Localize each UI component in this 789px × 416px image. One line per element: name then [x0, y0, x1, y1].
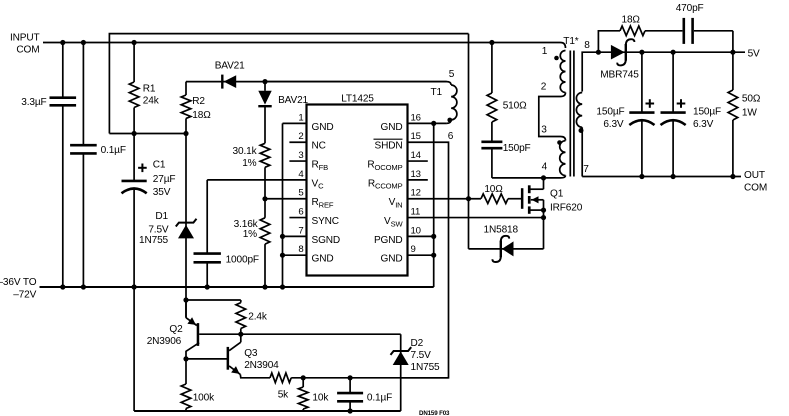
svg-text:T1*: T1* — [563, 36, 578, 47]
svg-text:7: 7 — [298, 225, 303, 236]
svg-text:R1: R1 — [143, 84, 156, 95]
svg-text:6.3V: 6.3V — [603, 119, 624, 130]
svg-text:GND: GND — [312, 254, 334, 265]
svg-text:MBR745: MBR745 — [600, 70, 639, 81]
svg-text:1%: 1% — [242, 158, 256, 169]
svg-text:2N3904: 2N3904 — [244, 360, 279, 371]
svg-text:13: 13 — [411, 169, 421, 180]
svg-text:18Ω: 18Ω — [622, 15, 641, 26]
svg-text:LT1425: LT1425 — [341, 93, 374, 104]
svg-text:C1: C1 — [153, 160, 166, 171]
svg-text:D2: D2 — [411, 338, 424, 349]
svg-text:16: 16 — [411, 112, 421, 123]
svg-text:15: 15 — [411, 131, 421, 142]
svg-text:7.5V: 7.5V — [411, 350, 432, 361]
svg-text:24k: 24k — [143, 96, 160, 107]
svg-text:DN159 F03: DN159 F03 — [419, 410, 450, 416]
svg-text:5: 5 — [449, 69, 455, 80]
svg-text:COM: COM — [744, 183, 767, 194]
svg-text:470pF: 470pF — [676, 3, 704, 14]
svg-text:5k: 5k — [278, 389, 289, 400]
svg-text:18Ω: 18Ω — [192, 110, 211, 121]
svg-text:2.4k: 2.4k — [248, 312, 268, 323]
svg-text:7: 7 — [583, 164, 589, 175]
svg-text:Q1: Q1 — [550, 189, 564, 200]
svg-text:10k: 10k — [312, 393, 329, 404]
svg-text:Q3: Q3 — [244, 348, 258, 359]
svg-text:3: 3 — [298, 150, 303, 161]
svg-text:0.1µF: 0.1µF — [101, 145, 126, 156]
svg-text:30.1k: 30.1k — [233, 146, 258, 157]
svg-text:27µF: 27µF — [153, 174, 176, 185]
svg-text:3: 3 — [541, 125, 547, 136]
svg-text:GND: GND — [312, 122, 334, 133]
svg-text:150µF: 150µF — [693, 107, 721, 118]
svg-text:NC: NC — [312, 141, 326, 152]
svg-text:6.3V: 6.3V — [693, 119, 714, 130]
svg-text:OUT: OUT — [744, 170, 765, 181]
svg-text:100k: 100k — [193, 392, 215, 403]
svg-text:GND: GND — [381, 122, 403, 133]
svg-text:Q2: Q2 — [169, 324, 183, 335]
svg-text:8: 8 — [298, 244, 303, 255]
svg-text:10: 10 — [411, 225, 421, 236]
svg-text:SYNC: SYNC — [312, 216, 339, 227]
svg-text:12: 12 — [411, 188, 421, 199]
svg-text:1N5818: 1N5818 — [484, 224, 519, 235]
svg-text:T1: T1 — [431, 87, 443, 98]
svg-text:2N3906: 2N3906 — [147, 336, 182, 347]
svg-text:6: 6 — [298, 207, 303, 218]
svg-text:10Ω: 10Ω — [484, 184, 503, 195]
svg-text:INPUT: INPUT — [10, 33, 40, 44]
svg-text:150µF: 150µF — [596, 107, 624, 118]
svg-text:1: 1 — [298, 112, 303, 123]
svg-text:SHDN: SHDN — [374, 141, 402, 152]
svg-text:11: 11 — [411, 207, 421, 218]
svg-text:1N755: 1N755 — [139, 235, 169, 246]
svg-text:D1: D1 — [155, 211, 168, 222]
svg-text:SGND: SGND — [312, 235, 341, 246]
svg-text:BAV21: BAV21 — [215, 60, 245, 71]
svg-text:4: 4 — [542, 161, 548, 172]
svg-text:5: 5 — [298, 188, 303, 199]
svg-text:7.5V: 7.5V — [148, 225, 169, 236]
svg-text:GND: GND — [381, 254, 403, 265]
svg-text:2: 2 — [541, 82, 547, 93]
svg-text:R2: R2 — [192, 96, 205, 107]
svg-text:–72V: –72V — [13, 289, 36, 300]
svg-text:IRF620: IRF620 — [550, 203, 583, 214]
svg-text:14: 14 — [411, 150, 422, 161]
svg-text:50Ω: 50Ω — [742, 94, 761, 105]
svg-text:3.3µF: 3.3µF — [21, 97, 46, 108]
svg-text:1: 1 — [542, 46, 548, 57]
svg-text:5V: 5V — [748, 49, 760, 60]
svg-text:1W: 1W — [742, 108, 757, 119]
svg-text:PGND: PGND — [374, 235, 403, 246]
svg-text:1N755: 1N755 — [411, 362, 441, 373]
svg-text:9: 9 — [411, 244, 416, 255]
svg-text:COM: COM — [16, 45, 39, 56]
svg-text:4: 4 — [298, 169, 304, 180]
svg-text:0.1µF: 0.1µF — [367, 393, 392, 404]
svg-text:6: 6 — [448, 131, 454, 142]
svg-text:2: 2 — [298, 131, 303, 142]
svg-text:1000pF: 1000pF — [226, 254, 259, 265]
svg-text:510Ω: 510Ω — [503, 101, 527, 112]
svg-text:1%: 1% — [243, 229, 257, 240]
svg-text:–36V TO: –36V TO — [0, 277, 37, 288]
svg-text:150pF: 150pF — [503, 143, 531, 154]
svg-text:BAV21: BAV21 — [278, 95, 308, 106]
svg-text:8: 8 — [584, 40, 590, 51]
svg-text:35V: 35V — [153, 187, 171, 198]
